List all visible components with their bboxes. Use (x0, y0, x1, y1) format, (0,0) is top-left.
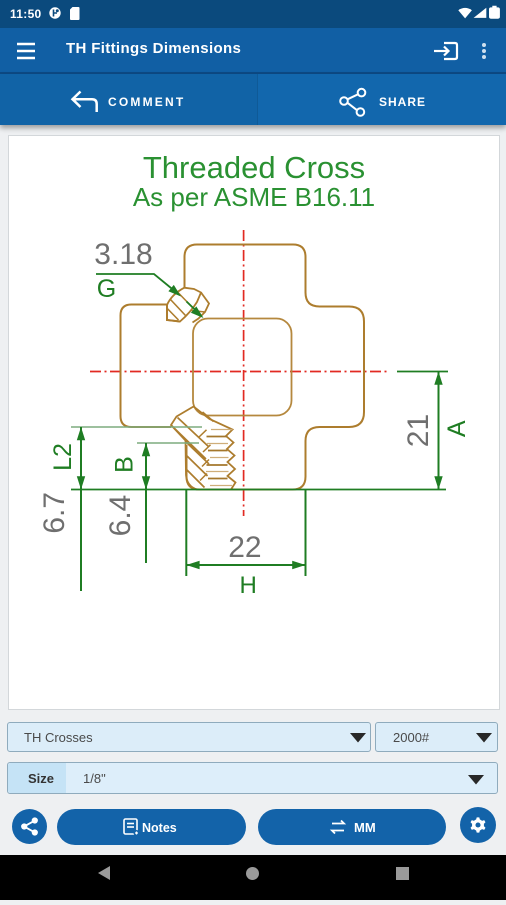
svg-text:6.7: 6.7 (38, 492, 71, 534)
svg-text:Notes: Notes (142, 821, 177, 835)
exit-to-app icon (434, 43, 457, 59)
top thread hatch (167, 293, 205, 321)
svg-text:H: H (240, 572, 257, 599)
back button (98, 866, 110, 880)
comment reply icon (73, 92, 97, 113)
svg-text:MM: MM (354, 820, 376, 835)
action bar (0, 74, 506, 125)
top thread outline (167, 288, 209, 323)
recents button (396, 867, 409, 880)
fitting outline rear cross (185, 245, 365, 490)
svg-text:21: 21 (402, 414, 435, 447)
H dimension line (186, 564, 305, 566)
vertical centerline (243, 230, 245, 516)
bottom thread root lines dark (207, 437, 228, 479)
dropdown 2000# (375, 722, 498, 752)
white card (8, 135, 500, 710)
L2 dimension line (80, 427, 82, 591)
bottom share button (12, 809, 47, 844)
inner bore rounded square (193, 319, 292, 416)
technical drawing svg (0, 135, 506, 710)
bottom thread envelope (171, 407, 236, 490)
G leader line (96, 274, 177, 293)
horizontal centerline (90, 371, 389, 373)
share icon (340, 89, 365, 116)
drawing title (8, 150, 500, 186)
app bar (0, 28, 506, 74)
svg-text:A: A (443, 420, 471, 437)
B dimension line (145, 443, 147, 563)
svg-text:B: B (111, 456, 139, 473)
L2 extension line (71, 426, 202, 428)
H extension lines (185, 490, 187, 577)
sim icon (70, 7, 80, 20)
baseline extension (71, 489, 446, 491)
settings button (460, 807, 496, 843)
cell signal icon (474, 8, 487, 18)
dropdown Size (7, 762, 498, 794)
status bar (0, 0, 506, 28)
wifi icon (458, 8, 472, 19)
MM button (258, 809, 446, 845)
svg-text:G: G (97, 275, 116, 303)
android nav bar (0, 855, 506, 900)
svg-text:6.4: 6.4 (104, 495, 137, 537)
svg-text:L2: L2 (49, 443, 77, 471)
bottom thread root lines light (206, 430, 233, 486)
A dimension line (438, 372, 440, 490)
A extension line (397, 371, 448, 373)
bottom thread diagonal hatch (172, 412, 214, 488)
B extension line (137, 442, 199, 444)
Notes button (57, 809, 246, 845)
front-left arm opening corner (167, 305, 180, 322)
svg-text:3.18: 3.18 (94, 238, 152, 271)
hamburger menu icon (17, 44, 35, 58)
fitting outline front-left arm (121, 305, 172, 428)
svg-text:22: 22 (228, 531, 261, 564)
overflow menu dots (482, 43, 486, 59)
home button (246, 867, 259, 880)
dropdown TH Crosses (7, 722, 371, 752)
battery icon (489, 6, 500, 19)
bottom thread chevron backs (199, 430, 211, 481)
notification icon circle (49, 7, 60, 18)
